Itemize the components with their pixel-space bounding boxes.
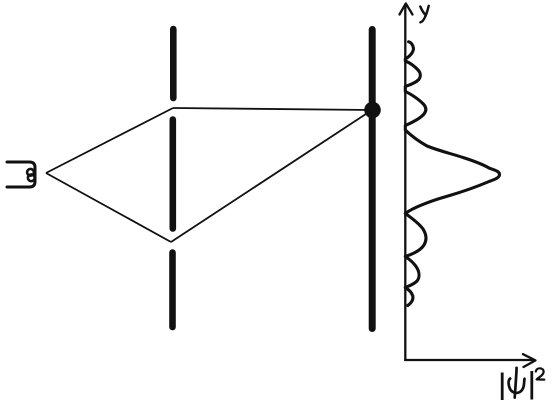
label psi stem xyxy=(515,368,517,398)
barrier middle segment (between slits) xyxy=(170,120,177,229)
ray upper slit to detection point xyxy=(173,108,372,110)
interference intensity curve |psi|^2 xyxy=(405,42,499,306)
source filament coil upper loop xyxy=(27,169,34,176)
ray source to lower slit xyxy=(46,173,171,242)
detection screen xyxy=(369,30,376,329)
x axis arrowhead xyxy=(523,354,536,367)
barrier top segment xyxy=(170,29,177,98)
source filament coil lower loop xyxy=(28,174,35,181)
y axis arrowhead xyxy=(400,4,413,15)
label superscript 2 xyxy=(536,368,545,379)
label psi bowl xyxy=(509,379,525,393)
ray lower slit to detection point xyxy=(171,110,372,242)
barrier bottom segment xyxy=(169,253,176,328)
x axis line xyxy=(404,359,533,361)
detection point (dot) xyxy=(364,102,381,119)
source S (oven/gun bracket) xyxy=(7,162,35,187)
label y (axis label) right arm and tail xyxy=(420,6,428,23)
label y (axis label) left arm xyxy=(420,7,426,16)
label |psi|^2 left bar xyxy=(501,373,504,401)
y axis line xyxy=(404,5,406,361)
label |psi|^2 right bar xyxy=(530,371,533,400)
ray source to upper slit xyxy=(46,108,173,173)
